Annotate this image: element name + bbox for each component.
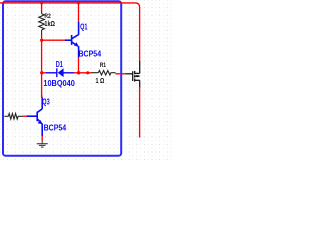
svg-text:10BQ040: 10BQ040 — [43, 79, 75, 88]
node D1 left — [40, 71, 43, 74]
mosfet body arrow — [135, 75, 138, 78]
svg-text:1 Ω: 1 Ω — [96, 78, 105, 85]
mosfet body dot — [137, 75, 139, 77]
resistor Rleft — [4, 114, 23, 120]
wire R2 bottom to D1 node to Q3 — [41, 35, 43, 98]
mosfet M1 — [126, 61, 140, 87]
node base tap — [40, 39, 43, 42]
wire D1 left stub — [42, 72, 46, 74]
wire Q3 emitter to ground — [41, 136, 43, 141]
ground — [37, 140, 48, 147]
wire VCC top rail — [0, 3, 140, 61]
svg-text:BCP54: BCP54 — [44, 123, 67, 132]
node rail-R2 — [40, 2, 43, 5]
wire R1 to gate — [115, 73, 126, 75]
wire R2 top — [41, 3, 43, 12]
svg-text:BCP54: BCP54 — [79, 49, 102, 58]
wire Q1 emitter down — [78, 57, 80, 74]
svg-text:D1: D1 — [56, 59, 63, 69]
resistor R1 — [92, 71, 116, 76]
svg-text:R1: R1 — [100, 62, 107, 69]
Q1 emitter arrow — [74, 42, 79, 46]
resistor R2 — [39, 12, 45, 36]
svg-text:1kΩ: 1kΩ — [44, 21, 55, 28]
Q3 emitter arrow — [38, 120, 43, 124]
transistor Q1 — [65, 22, 79, 58]
svg-text:R2: R2 — [44, 13, 51, 20]
wire D1 to R1 — [74, 72, 92, 74]
svg-text:Q1: Q1 — [80, 21, 88, 31]
wire Q1 collector — [78, 3, 80, 22]
wire source down — [139, 87, 141, 138]
node emitter-D1-R1 — [77, 71, 80, 74]
wire Q3 collector — [41, 95, 43, 98]
block border (blue rounded rectangle) — [3, 1, 121, 155]
svg-text:Q3: Q3 — [42, 97, 50, 107]
node rail-Q1 — [77, 2, 80, 5]
diode D1 — [46, 68, 74, 77]
wire to Q3 base — [23, 115, 27, 117]
node mid — [86, 71, 89, 74]
transistor Q3 — [27, 98, 42, 136]
wire Q1 base — [42, 39, 65, 41]
